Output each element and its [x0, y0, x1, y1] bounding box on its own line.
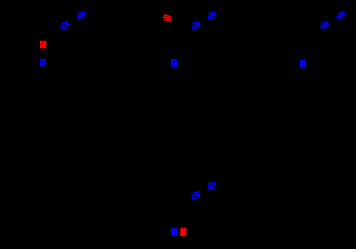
bond N=N (bottom azide, upper)	[207, 182, 215, 189]
bond N=N (right azide, lower)	[321, 22, 329, 29]
bond N=N (bottom azide, lower)	[192, 192, 200, 199]
atom O (bottom hydroxyl oxygen)	[180, 228, 186, 237]
atom N (right amide nitrogen)	[300, 60, 306, 68]
bond N=N (middle azide, lower)	[192, 22, 200, 29]
bond N=N (middle azide, upper)	[208, 12, 216, 19]
atom N (middle amide nitrogen)	[171, 59, 177, 67]
bond N=N (left azide, lower)	[60, 22, 68, 29]
bond C=O (top middle carbonyl)	[163, 15, 171, 21]
atom N (left amide nitrogen)	[40, 59, 46, 66]
atom O (left carbonyl oxygen)	[40, 41, 46, 49]
bond N=N (right azide, upper)	[337, 12, 346, 19]
bond N=N (left azide, upper)	[77, 12, 85, 19]
atom N (bottom NH nitrogen)	[171, 228, 177, 237]
